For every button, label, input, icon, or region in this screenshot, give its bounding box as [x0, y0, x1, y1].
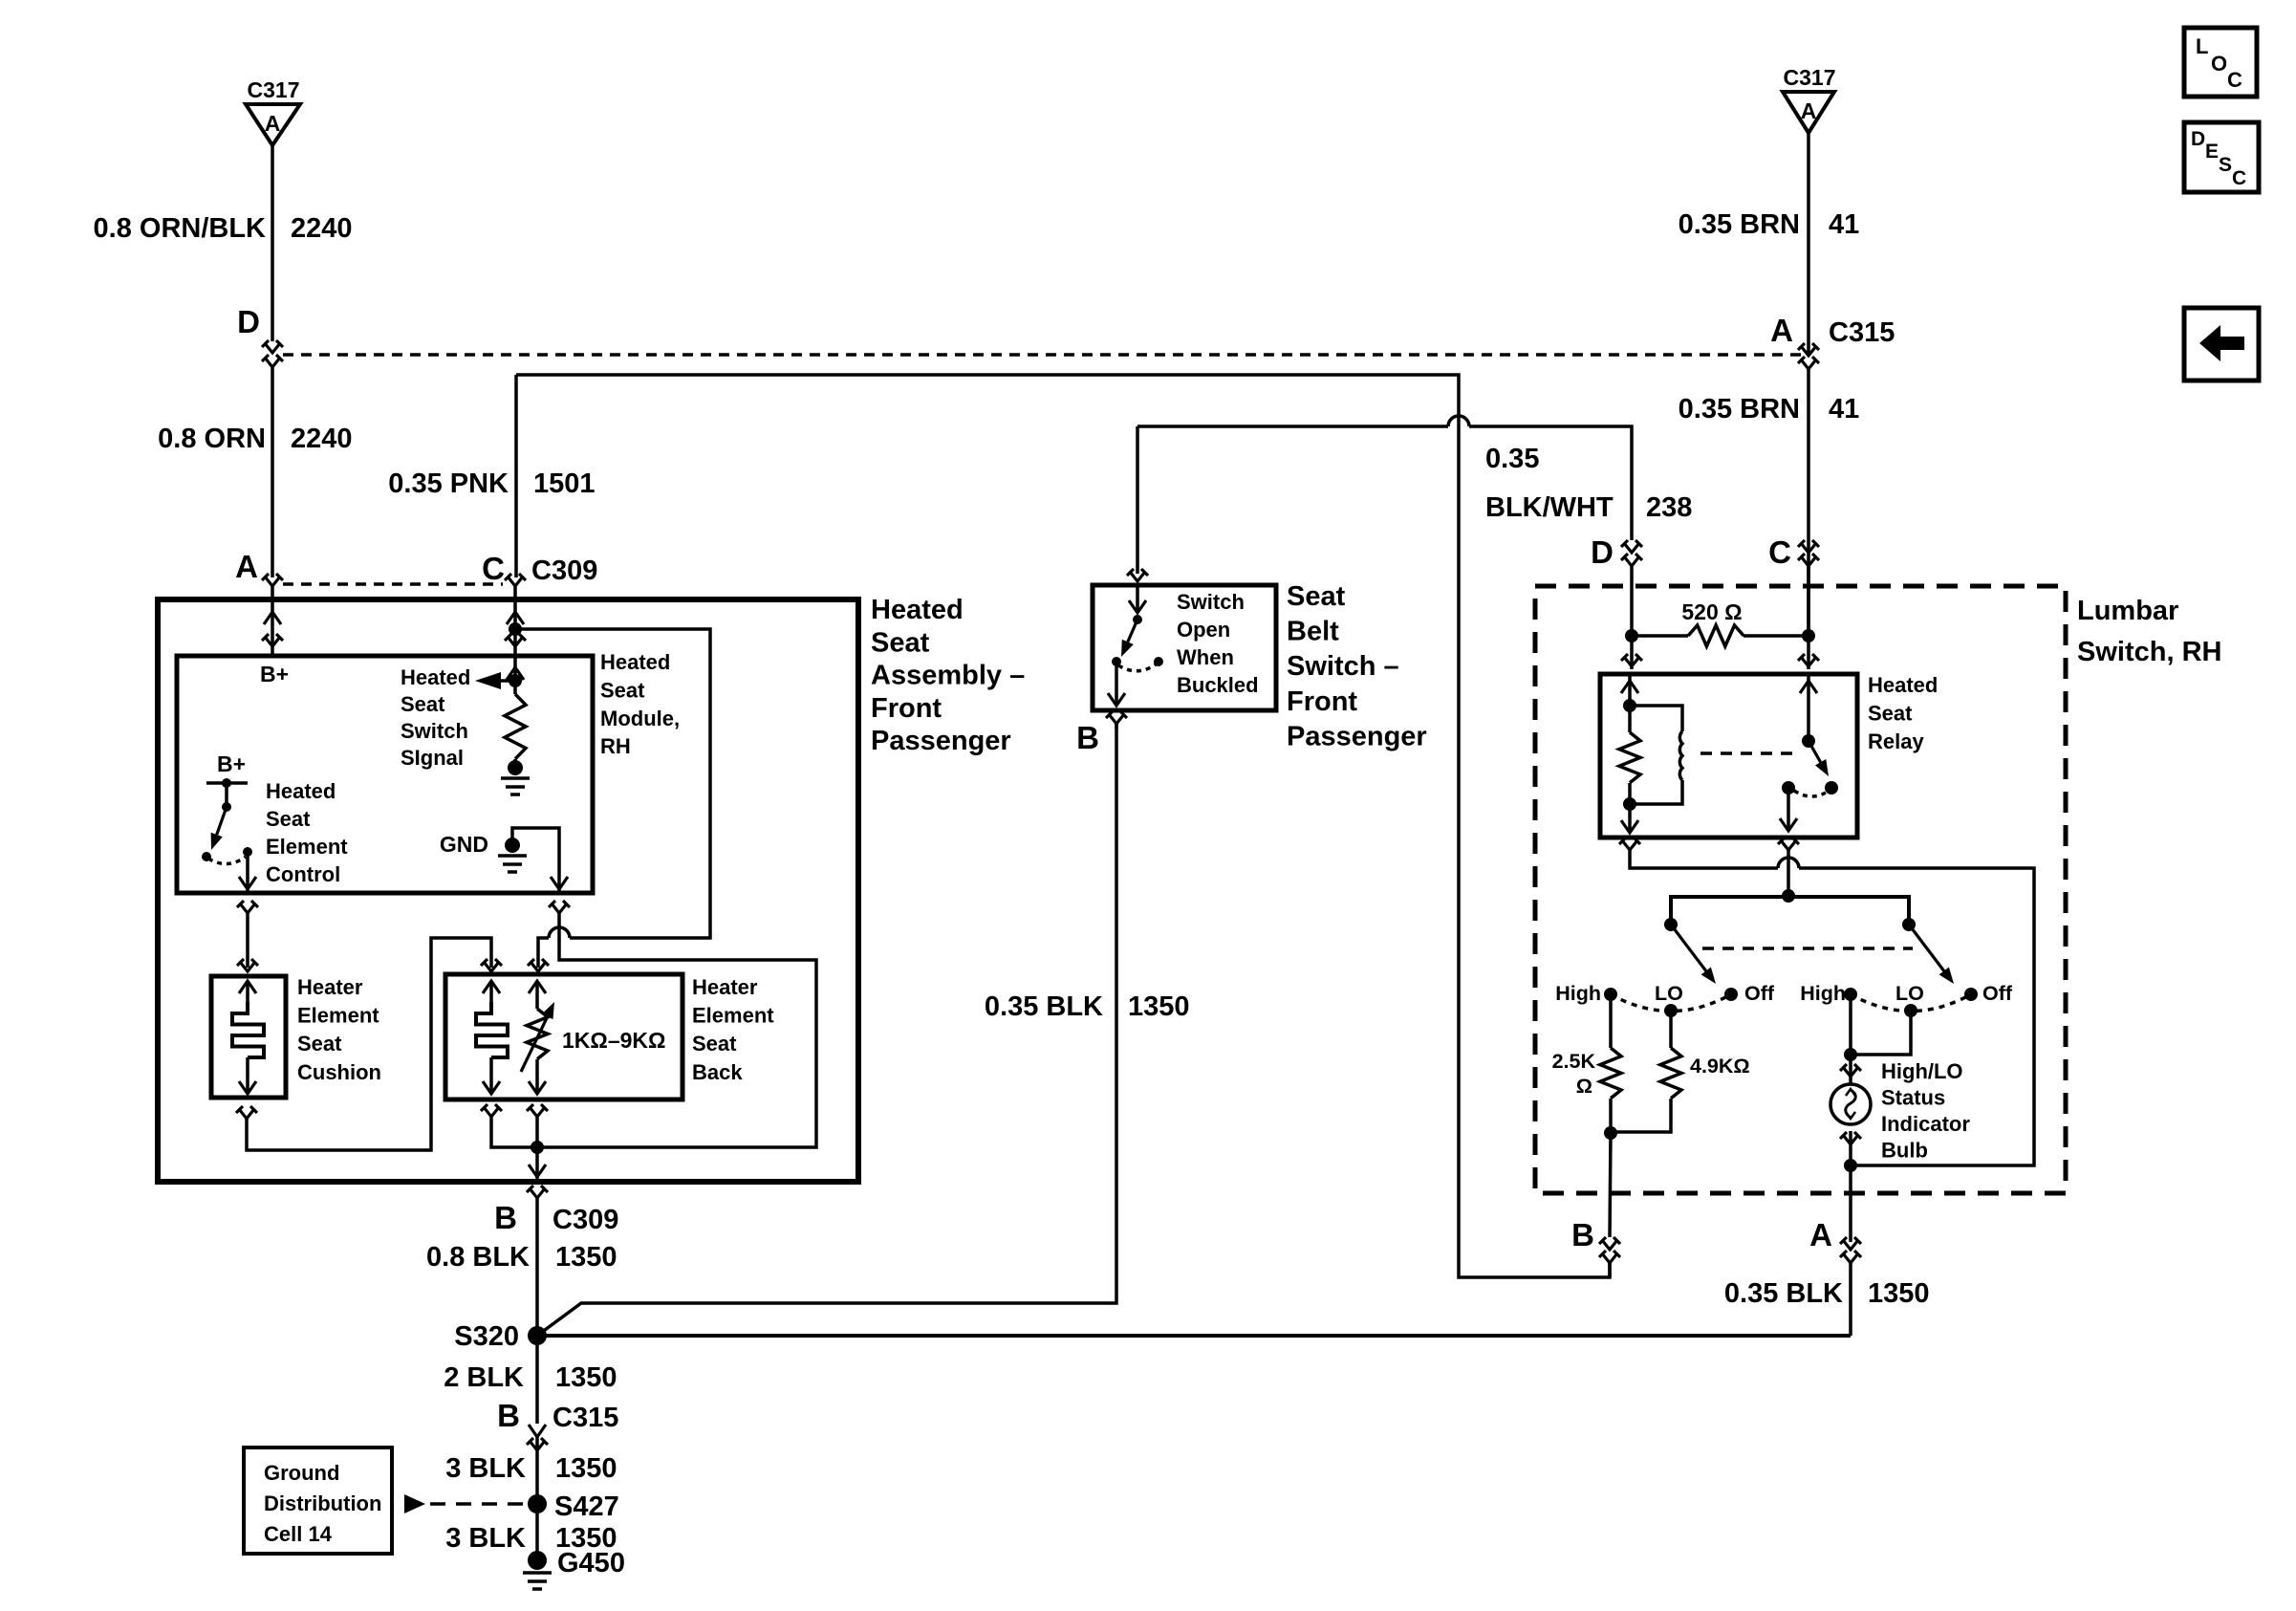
- wire GND to module bottom: [512, 828, 559, 893]
- wire A pin entry into assembly: [271, 586, 274, 656]
- svg-text:0.35: 0.35: [1485, 444, 1539, 474]
- junction resistors: [1604, 1126, 1617, 1140]
- svg-text:1501: 1501: [533, 468, 596, 499]
- svg-text:Module,: Module,: [600, 707, 680, 730]
- svg-text:C: C: [2227, 68, 2242, 92]
- bulb filament arrow bottom: [1846, 1112, 1855, 1119]
- wire to C309-B: [535, 1147, 539, 1182]
- svg-text:B+: B+: [260, 662, 289, 686]
- svg-text:520 Ω: 520 Ω: [1681, 599, 1742, 624]
- svg-text:Belt: Belt: [1287, 617, 1339, 647]
- svg-text:0.35 BRN: 0.35 BRN: [1679, 209, 1800, 240]
- arrow into module on signal wire: [507, 667, 524, 680]
- relay suppression resistor: [1619, 732, 1640, 783]
- indicator bulb branch: [1849, 994, 1852, 1055]
- svg-text:Open: Open: [1177, 618, 1230, 642]
- dashed contact arc (element control): [208, 857, 246, 864]
- wire 0.35 BLK 1350 (S320 to lumbar A): [537, 1334, 1851, 1338]
- wire to lumbar B pin: [1610, 1133, 1611, 1237]
- wire 0.35 BRN 41 upper: [1807, 133, 1810, 354]
- junction 520 right: [1802, 629, 1815, 642]
- svg-text:4.9KΩ: 4.9KΩ: [1690, 1055, 1750, 1078]
- svg-text:Switch: Switch: [1177, 590, 1245, 614]
- contact (element control left): [202, 852, 211, 861]
- svg-text:LO: LO: [1895, 982, 1924, 1005]
- svg-text:Lumbar: Lumbar: [2077, 596, 2178, 626]
- seat belt switch top wire: [1136, 426, 1139, 574]
- wire 238 BLK/WHT (seat belt switch to relay D): [1137, 425, 1448, 428]
- relay switch: [1807, 674, 1810, 741]
- svg-text:B: B: [494, 1200, 517, 1235]
- svg-text:Seat: Seat: [1868, 702, 1913, 726]
- contact seat belt left: [1112, 657, 1121, 666]
- svg-text:Back: Back: [692, 1060, 743, 1084]
- pivot right selector: [1902, 918, 1916, 931]
- svg-text:Heated: Heated: [871, 595, 964, 625]
- resistor 4.9K: [1669, 1011, 1673, 1048]
- svg-text:C315: C315: [1829, 317, 1895, 348]
- heater element (seat back): [489, 981, 493, 1002]
- svg-text:D: D: [2191, 128, 2205, 150]
- svg-text:0.35 BRN: 0.35 BRN: [1679, 394, 1800, 425]
- svg-text:When: When: [1177, 645, 1234, 669]
- svg-text:B: B: [497, 1398, 520, 1433]
- connector chevron C309-C: [505, 574, 526, 586]
- svg-text:0.8 ORN: 0.8 ORN: [158, 424, 266, 454]
- switch input stem: [1136, 585, 1139, 613]
- svg-text:Heated: Heated: [600, 650, 670, 674]
- relay arm: [1809, 741, 1821, 762]
- wire lumbar A pin: [1849, 1165, 1852, 1242]
- splice S320: [528, 1326, 547, 1345]
- svg-text:C317: C317: [248, 77, 300, 102]
- svg-text:Buckled: Buckled: [1177, 673, 1259, 697]
- wire 0.8 ORN 2240: [271, 367, 274, 577]
- svg-text:1350: 1350: [1128, 991, 1190, 1022]
- lumbar selector rail: [1671, 897, 1909, 920]
- svg-text:0.8 ORN/BLK: 0.8 ORN/BLK: [94, 213, 267, 244]
- svg-text:Switch: Switch: [401, 719, 468, 743]
- svg-text:Cushion: Cushion: [297, 1060, 381, 1084]
- svg-text:0.8 BLK: 0.8 BLK: [426, 1242, 530, 1273]
- svg-text:High: High: [1800, 982, 1846, 1005]
- svg-text:E: E: [2205, 141, 2219, 163]
- arrow Heated Seat Switch Signal (left-pointing solid): [475, 672, 501, 689]
- svg-text:C: C: [482, 551, 505, 586]
- box Heated Seat Assembly - Front Passenger: [158, 599, 858, 1182]
- connector chevron C309-A: [262, 574, 283, 586]
- svg-text:High: High: [1555, 982, 1601, 1005]
- svg-text:Cell 14: Cell 14: [264, 1522, 333, 1546]
- junction bulb return: [1844, 1159, 1857, 1172]
- connector C315 dashed line: [283, 353, 1802, 357]
- dashed contact arc (right): [1851, 994, 1971, 1012]
- junction High/LO tie: [1844, 1048, 1857, 1061]
- dashed actuation link: [1700, 751, 1801, 755]
- svg-text:S: S: [2219, 154, 2232, 176]
- svg-text:C: C: [1768, 534, 1791, 570]
- svg-text:Seat: Seat: [297, 1032, 342, 1056]
- svg-text:A: A: [1809, 1217, 1832, 1252]
- chevron relay pin left: [1621, 654, 1642, 666]
- connector chevron C315-A: [1798, 343, 1819, 356]
- svg-text:Passenger: Passenger: [1287, 721, 1427, 751]
- contact High (left): [1604, 988, 1617, 1001]
- bulb High/LO Status Indicator: [1830, 1084, 1871, 1124]
- wire module output to heater element seat cushion: [237, 901, 258, 913]
- svg-text:Seat: Seat: [871, 627, 930, 658]
- svg-text:Element: Element: [692, 1004, 774, 1028]
- svg-text:Front: Front: [871, 693, 942, 724]
- relay coil: [1630, 706, 1682, 731]
- svg-text:Passenger: Passenger: [871, 726, 1011, 756]
- svg-text:Seat: Seat: [600, 678, 645, 702]
- wire lumbar B to 1501 run: [1608, 1263, 1612, 1277]
- svg-text:Assembly –: Assembly –: [871, 661, 1025, 691]
- box Lumbar Switch RH (dashed): [1535, 586, 2066, 1193]
- svg-text:2.5K: 2.5K: [1552, 1050, 1596, 1073]
- svg-text:238: 238: [1646, 492, 1692, 523]
- ground distribution reference arrow: [404, 1494, 425, 1513]
- svg-text:Off: Off: [1982, 982, 2013, 1005]
- svg-text:Off: Off: [1744, 982, 1775, 1005]
- svg-text:D: D: [1591, 534, 1614, 570]
- svg-text:Element: Element: [297, 1004, 379, 1028]
- connector arrow C315-B: [529, 1425, 546, 1437]
- svg-text:1350: 1350: [555, 1242, 617, 1273]
- junction heated seat switch signal: [509, 674, 522, 687]
- svg-text:Heater: Heater: [692, 975, 758, 999]
- svg-text:High/LO: High/LO: [1881, 1059, 1963, 1083]
- connector chevron C315-C (lumbar): [1798, 540, 1819, 553]
- B+ bar: [206, 781, 248, 785]
- ground dot (signal): [508, 760, 523, 775]
- svg-text:41: 41: [1829, 209, 1859, 240]
- svg-text:A: A: [1801, 98, 1817, 123]
- svg-text:1KΩ–9KΩ: 1KΩ–9KΩ: [562, 1028, 665, 1053]
- svg-text:C317: C317: [1784, 65, 1836, 90]
- svg-text:0.35 BLK: 0.35 BLK: [1724, 1278, 1843, 1309]
- variable resistor 1K-9K: [535, 981, 539, 1009]
- wire GND return path: [549, 901, 570, 913]
- wire 3 BLK 1350 to G450: [535, 1504, 539, 1560]
- svg-text:Heated: Heated: [401, 665, 470, 689]
- junction 520 left: [1625, 629, 1638, 642]
- splice S427: [528, 1494, 547, 1513]
- svg-text:O: O: [2211, 52, 2227, 76]
- svg-text:Ω: Ω: [1576, 1075, 1592, 1098]
- wire 1501 branch to variable resistor: [515, 629, 710, 938]
- relay coil input: [1628, 674, 1632, 706]
- junction seat heater return: [531, 1141, 544, 1154]
- svg-text:Heater: Heater: [297, 975, 363, 999]
- svg-text:2 BLK: 2 BLK: [444, 1362, 524, 1393]
- GND symbol: [498, 854, 527, 858]
- svg-text:Control: Control: [266, 862, 340, 886]
- wire hop (1501 over GND wire): [549, 927, 570, 938]
- ground G450 dot: [528, 1551, 547, 1570]
- switch arm (element control): [217, 807, 227, 835]
- svg-text:Seat: Seat: [266, 807, 311, 831]
- relay outputs: [1619, 838, 1640, 850]
- dashed selector link: [1702, 947, 1913, 950]
- svg-text:Seat: Seat: [401, 692, 445, 716]
- GND dot: [505, 838, 520, 853]
- selector arm right: [1909, 925, 1944, 971]
- svg-text:Heated: Heated: [1868, 673, 1938, 697]
- svg-text:Distribution: Distribution: [264, 1491, 381, 1515]
- wire C pin entry into assembly (1501 signal): [513, 586, 517, 694]
- box Heated Seat Module RH: [177, 656, 593, 893]
- svg-text:C309: C309: [531, 555, 597, 586]
- wire S320 to seat belt switch B: [541, 724, 1116, 1333]
- contact seat belt right: [1154, 657, 1163, 666]
- svg-text:3 BLK: 3 BLK: [445, 1453, 526, 1484]
- wire 2 BLK 1350: [535, 1336, 539, 1424]
- contact Off (left): [1724, 988, 1738, 1001]
- svg-text:41: 41: [1829, 394, 1859, 425]
- wire 0.35 BRN 41 lower: [1807, 369, 1810, 633]
- contact (element control output): [243, 847, 252, 857]
- bulb filament arrow top: [1846, 1089, 1855, 1096]
- chevron relay pin right: [1798, 654, 1819, 666]
- connector C317 (left, in-line triangle): [246, 104, 300, 145]
- svg-text:Heated: Heated: [266, 779, 336, 803]
- svg-text:C309: C309: [552, 1205, 618, 1235]
- connector chevron lumbar B: [1599, 1237, 1620, 1250]
- resistor 2.5K: [1609, 994, 1613, 1048]
- selector arm left: [1671, 925, 1706, 971]
- connector chevron C315-B: [527, 1438, 548, 1450]
- svg-text:Seat: Seat: [692, 1032, 737, 1056]
- box DESC: [2184, 122, 2259, 192]
- wire 1501 long run to lumbar B: [516, 375, 1610, 1277]
- svg-text:B: B: [1571, 1217, 1594, 1252]
- wire 0.35 PNK 1501 vertical: [514, 375, 518, 577]
- connector C317 (right, in-line triangle): [1783, 92, 1834, 133]
- svg-text:A: A: [265, 111, 281, 136]
- switch arm (seat belt): [1128, 620, 1137, 642]
- connector chevron lumbar A: [1840, 1237, 1861, 1250]
- ground symbol (signal): [501, 776, 530, 780]
- wire cushion output loop to seat back box: [236, 1106, 257, 1119]
- relay contact (NO): [1825, 781, 1838, 795]
- svg-text:1350: 1350: [555, 1453, 617, 1484]
- svg-text:Front: Front: [1287, 686, 1357, 717]
- contact LO (right): [1904, 1004, 1917, 1017]
- box Heater Element Seat Cushion: [211, 976, 286, 1098]
- svg-text:Bulb: Bulb: [1881, 1139, 1928, 1163]
- variable resistor arrow: [521, 1016, 548, 1072]
- dashed arc (seat belt switch): [1118, 664, 1156, 671]
- wire 3 BLK 1350: [535, 1437, 539, 1498]
- box Seat Belt Switch - Front Passenger: [1093, 585, 1276, 710]
- wire hop (238 over 1501): [1448, 416, 1469, 426]
- svg-text:2240: 2240: [291, 213, 353, 244]
- svg-text:L: L: [2196, 34, 2208, 58]
- svg-text:Relay: Relay: [1868, 729, 1924, 753]
- dashed arc relay contacts: [1794, 791, 1826, 796]
- wire 0.8 BLK 1350: [535, 1198, 539, 1328]
- wire 0.8 ORN/BLK 2240 (C317-A to C315-D): [271, 145, 274, 341]
- svg-text:Status: Status: [1881, 1086, 1945, 1110]
- wire element control output: [246, 852, 249, 893]
- svg-text:Switch –: Switch –: [1287, 651, 1399, 682]
- pivot left selector: [1664, 918, 1678, 931]
- box Ground Distribution Cell 14: [244, 1448, 392, 1554]
- svg-text:LO: LO: [1655, 982, 1683, 1005]
- svg-text:D: D: [237, 304, 260, 339]
- box Heater Element Seat Back: [445, 974, 682, 1099]
- contact Off (right): [1964, 988, 1978, 1001]
- box LOC: [2184, 28, 2257, 97]
- svg-text:Element: Element: [266, 835, 348, 859]
- svg-text:S427: S427: [554, 1491, 619, 1522]
- ground G450 symbol: [523, 1571, 552, 1575]
- svg-text:S320: S320: [454, 1321, 519, 1352]
- svg-text:G450: G450: [557, 1548, 625, 1578]
- svg-text:Ground: Ground: [264, 1461, 339, 1485]
- heater element (seat cushion): [246, 981, 249, 1002]
- contact High (right): [1844, 988, 1857, 1001]
- chevron below seat belt switch: [1106, 711, 1127, 724]
- svg-text:A: A: [235, 549, 258, 584]
- svg-text:A: A: [1770, 313, 1793, 348]
- connector C309 dashed line: [283, 582, 503, 586]
- svg-text:1350: 1350: [1868, 1278, 1930, 1309]
- svg-text:3 BLK: 3 BLK: [445, 1523, 526, 1554]
- junction 1501 branch: [509, 622, 522, 636]
- resistor (switch signal pull-down): [505, 694, 526, 759]
- left arrow icon: [2199, 325, 2244, 361]
- box arrow (page reference): [2184, 308, 2259, 381]
- svg-text:C: C: [2232, 167, 2246, 189]
- svg-text:0.35 PNK: 0.35 PNK: [388, 468, 509, 499]
- relay contact (output): [1782, 781, 1795, 795]
- svg-text:Switch, RH: Switch, RH: [2077, 637, 2221, 667]
- svg-text:GND: GND: [440, 832, 488, 857]
- wires seat back outputs join: [481, 1104, 502, 1117]
- connector chevron C315-D: [262, 340, 283, 353]
- svg-text:2240: 2240: [291, 424, 353, 454]
- connector chevron C309-B: [527, 1186, 548, 1198]
- wire hop (coil return over switch output): [1778, 858, 1799, 868]
- svg-text:C315: C315: [552, 1403, 618, 1433]
- junction switch output to rail: [1782, 889, 1795, 903]
- svg-text:Indicator: Indicator: [1881, 1112, 1970, 1136]
- svg-text:SIgnal: SIgnal: [401, 746, 464, 770]
- svg-text:RH: RH: [600, 734, 631, 758]
- connector chevron C315-D (lumbar): [1621, 540, 1642, 553]
- contact LO (left): [1664, 1004, 1678, 1017]
- box Heated Seat Relay: [1600, 674, 1857, 838]
- svg-text:BLK/WHT: BLK/WHT: [1485, 492, 1614, 523]
- svg-text:B: B: [1076, 720, 1099, 755]
- svg-text:1350: 1350: [555, 1362, 617, 1393]
- svg-text:0.35 BLK: 0.35 BLK: [985, 991, 1103, 1022]
- svg-text:B+: B+: [217, 751, 246, 776]
- dashed contact arc (left): [1611, 994, 1731, 1012]
- svg-text:Seat: Seat: [1287, 581, 1346, 612]
